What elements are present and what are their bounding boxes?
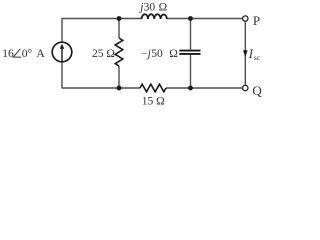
wire top rail left segment (62, 18, 142, 20)
resistor 15 ohm (horizontal zigzag) (140, 84, 166, 92)
svg-text:P: P (253, 13, 260, 28)
capacitor C1 plates (179, 51, 200, 54)
svg-text:30: 30 (144, 1, 156, 13)
inductor j30 ohm (4 bumps) (142, 14, 167, 19)
wire bottom rail left segment (62, 87, 140, 89)
svg-text:Ω: Ω (159, 1, 168, 13)
current source arrow (60, 44, 65, 62)
resistor 25 ohm (vertical zigzag) (115, 38, 123, 66)
label 16 angle 0 deg A (2, 48, 45, 60)
label j30 ohm (138, 1, 167, 13)
svg-text:−: − (141, 48, 148, 60)
svg-text:Ω: Ω (169, 48, 178, 60)
svg-text:25 Ω: 25 Ω (92, 48, 115, 60)
svg-text:15 Ω: 15 Ω (142, 95, 165, 107)
wire capacitor branch upper (190, 19, 192, 50)
junction node top of capacitor (188, 16, 193, 21)
wire 25-ohm branch lower (118, 66, 120, 88)
svg-text:sc: sc (254, 53, 261, 62)
junction node bottom of 25 ohm (117, 86, 122, 91)
current source U1 circle (52, 42, 72, 62)
terminal P circle (243, 16, 248, 21)
svg-text:16: 16 (2, 48, 14, 60)
wire right rail (short between P and Q) (244, 21, 246, 85)
wire left rail upper (61, 18, 63, 42)
wire bottom rail right segment (166, 87, 243, 89)
arrow Isc on right rail (243, 50, 248, 57)
svg-text:A: A (36, 48, 45, 60)
wire left rail lower (61, 62, 63, 89)
svg-text:50: 50 (151, 48, 163, 60)
terminal Q circle (243, 85, 248, 90)
wire 25-ohm branch upper (118, 19, 120, 39)
junction node top of 25 ohm (117, 16, 122, 21)
svg-text:Q: Q (252, 83, 262, 98)
label -j50 ohm (141, 48, 178, 60)
wire capacitor branch lower (190, 55, 192, 88)
junction node bottom of capacitor (188, 86, 193, 91)
wire top rail right segment (167, 18, 243, 20)
label Isc (248, 47, 261, 62)
svg-text:0°: 0° (22, 48, 33, 60)
